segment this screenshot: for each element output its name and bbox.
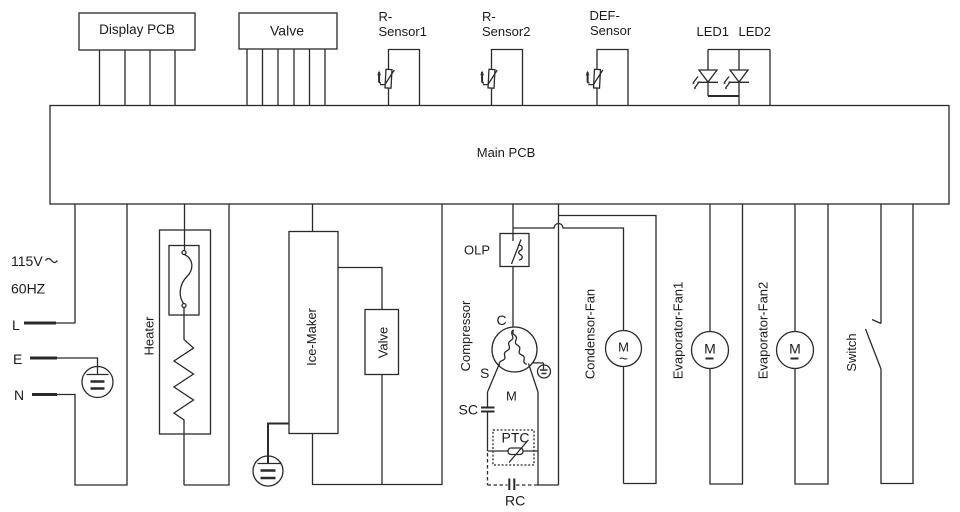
wire display pcb pin2 — [124, 50, 126, 106]
wire compressor feed — [512, 204, 514, 234]
svg-text:60HZ: 60HZ — [11, 281, 46, 297]
wire PTC horizontal — [488, 450, 539, 452]
svg-text:M: M — [789, 341, 801, 357]
wire evap-fan2 feed — [794, 204, 796, 332]
wire M side down — [537, 392, 539, 485]
PTC box dashed — [493, 430, 534, 465]
wire N to pcb — [57, 204, 127, 485]
wire valve pin1 — [246, 49, 248, 106]
svg-text:Valve: Valve — [376, 327, 391, 359]
wire ice-maker bottom — [313, 204, 443, 485]
wire S to SC — [487, 392, 489, 407]
thermistor R-Sensor2 — [488, 69, 495, 88]
display pcb box — [79, 13, 195, 50]
ice-maker box — [289, 232, 338, 434]
LED2 diode — [730, 70, 748, 82]
wire compressor S diagonal — [488, 364, 500, 393]
LED2 light arrows — [724, 77, 729, 84]
wire LED2 down to PCB — [738, 82, 740, 105]
wire display pcb pin1 — [99, 50, 101, 106]
R-Sensor1 loop wire — [389, 50, 420, 106]
thermistor PTC element — [508, 448, 523, 455]
wire valve pin6 — [324, 49, 326, 106]
svg-text:PTC: PTC — [502, 430, 530, 446]
wire OLP to compressor — [512, 267, 514, 328]
thermal fuse element — [182, 251, 186, 255]
wire valve branch — [338, 268, 382, 310]
wire RC dashed left — [487, 453, 489, 485]
svg-text:Evaporator-Fan2: Evaporator-Fan2 — [756, 282, 771, 380]
ground G2 — [253, 456, 283, 486]
svg-text:R-: R- — [379, 9, 393, 24]
svg-text:SC: SC — [459, 402, 478, 418]
capacitor RC — [508, 479, 510, 491]
wire RC dashed right — [516, 484, 536, 486]
wire ice-maker feed — [312, 204, 314, 232]
R-Sensor2 loop wire — [492, 50, 523, 106]
wire evap-fan1 feed — [709, 204, 711, 332]
svg-text:Sensor1: Sensor1 — [379, 24, 427, 39]
wire heater feed — [184, 204, 186, 251]
wire valve pin4 — [293, 49, 295, 106]
svg-text:DEF-: DEF- — [590, 8, 620, 23]
svg-text:S: S — [480, 365, 489, 381]
R-Sensor2 t label — [481, 72, 483, 82]
wire L to pcb — [56, 204, 75, 323]
svg-text:Main PCB: Main PCB — [477, 145, 536, 160]
OLP box — [500, 234, 529, 267]
motor condenser-fan — [606, 331, 642, 367]
svg-text:L: L — [12, 317, 20, 333]
wire heater return — [184, 204, 229, 485]
wire LED1 anode — [707, 50, 709, 71]
svg-text:Switch: Switch — [844, 333, 859, 371]
thermistor R-Sensor1 — [385, 69, 392, 88]
thermal fuse box — [169, 246, 199, 316]
main pcb U1 — [50, 106, 949, 205]
LED1 diode — [699, 70, 717, 82]
svg-text:OLP: OLP — [464, 243, 490, 258]
wire valve pin3 — [277, 49, 279, 106]
capacitor SC — [481, 407, 495, 409]
DEF-Sensor loop wire — [597, 50, 628, 106]
svg-text:R-: R- — [482, 9, 496, 24]
motor evaporator-fan1 — [692, 332, 729, 369]
wire valve pin2 — [262, 49, 264, 106]
resistor heater element — [174, 308, 194, 486]
wire LED2 anode — [738, 50, 740, 71]
valve box lower — [365, 310, 399, 375]
svg-text:Condensor-Fan: Condensor-Fan — [583, 289, 598, 379]
wire valve bottom — [381, 375, 383, 485]
wire compressor return riser — [558, 204, 560, 485]
heater box — [160, 230, 211, 434]
ground G1 — [82, 367, 113, 398]
wire condenser feed with hop — [513, 224, 624, 331]
thermistor DEF-Sensor — [594, 69, 601, 88]
wire valve pin5 — [309, 49, 311, 106]
svg-text:RC: RC — [505, 493, 525, 509]
svg-text:LED2: LED2 — [739, 24, 772, 39]
svg-text:C: C — [497, 312, 507, 328]
svg-text:N: N — [14, 387, 24, 403]
svg-text:Sensor2: Sensor2 — [482, 24, 530, 39]
compressor winding — [499, 330, 513, 366]
wire ice-maker ground branch — [268, 424, 289, 464]
wire evap-fan1 return — [710, 204, 743, 484]
wire LED1 to LED2 jumper — [708, 95, 739, 97]
wire switch feed — [880, 204, 882, 324]
motor evaporator-fan2 — [777, 332, 814, 369]
OLP symbol — [512, 234, 514, 242]
svg-text:LED1: LED1 — [697, 24, 730, 39]
svg-text:Heater: Heater — [142, 316, 157, 356]
DEF-Sensor t label — [587, 72, 589, 82]
valve box top — [239, 13, 337, 49]
LED1 light arrows — [693, 77, 698, 84]
svg-text:M: M — [506, 389, 517, 404]
wire compressor M diagonal — [529, 364, 539, 393]
R-Sensor1 t label — [378, 72, 380, 82]
wire condenser return top — [559, 216, 657, 484]
switch S1 — [872, 320, 881, 324]
wire condenser-fan bottom — [623, 367, 625, 484]
wire evap-fan2 return — [795, 204, 828, 484]
svg-text:Sensor: Sensor — [590, 23, 632, 38]
wire switch return — [881, 204, 913, 484]
wire LED1 cathode down — [707, 82, 709, 96]
svg-text:115V: 115V — [11, 253, 43, 269]
svg-text:~: ~ — [619, 351, 628, 368]
svg-text:Evaporator-Fan1: Evaporator-Fan1 — [671, 282, 686, 380]
svg-text:E: E — [13, 351, 22, 367]
svg-text:Compressor: Compressor — [458, 300, 473, 371]
wire compressor return — [536, 484, 559, 486]
wire E to ground — [57, 358, 98, 375]
svg-text:Ice-Maker: Ice-Maker — [304, 307, 319, 365]
wire display pcb pin4 — [174, 50, 176, 106]
svg-text:Display PCB: Display PCB — [99, 22, 175, 37]
wire LED top rail — [708, 49, 770, 51]
svg-text:Valve: Valve — [270, 23, 304, 39]
svg-text:M: M — [704, 341, 716, 357]
thermal protector circle — [538, 365, 551, 378]
wire SC to PTC — [487, 413, 489, 452]
thermal protector wire — [533, 362, 544, 364]
wire display pcb pin3 — [149, 50, 151, 106]
wire LED right branch — [769, 50, 771, 106]
compressor Q1 circle — [492, 327, 537, 372]
